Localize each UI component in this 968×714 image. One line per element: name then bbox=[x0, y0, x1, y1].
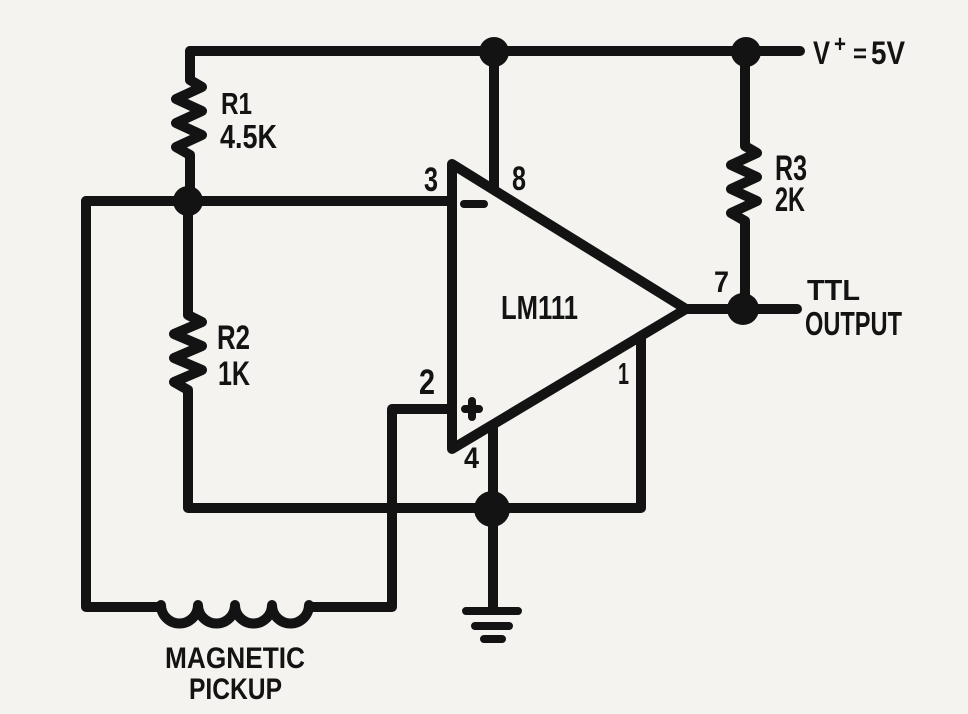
wire pin 4 down to ground bbox=[488, 425, 498, 607]
wire pickup right end up to pin 2 bbox=[309, 409, 450, 607]
svg-text:R1: R1 bbox=[221, 86, 252, 121]
svg-text:LM111: LM111 bbox=[501, 289, 578, 326]
op-amp U1 LM111 triangle bbox=[452, 164, 686, 449]
resistor R1 bbox=[176, 51, 202, 199]
svg-text:4.5K: 4.5K bbox=[220, 118, 277, 155]
minus symbol inverting input bbox=[464, 200, 484, 208]
svg-text:V: V bbox=[813, 35, 831, 71]
ground bbox=[466, 611, 518, 639]
svg-text:4: 4 bbox=[464, 442, 479, 475]
resistor R2 bbox=[174, 201, 202, 430]
wire top supply rail bbox=[190, 46, 800, 56]
svg-text:2: 2 bbox=[419, 363, 435, 402]
inductor magnetic pickup bbox=[161, 605, 309, 624]
svg-text:TTL: TTL bbox=[807, 275, 860, 307]
svg-text:PICKUP: PICKUP bbox=[189, 673, 282, 706]
junction node output pin7 bbox=[727, 293, 759, 325]
junction node ground (pins 1,4, R2) bbox=[474, 491, 510, 527]
junction node R3 top on rail bbox=[731, 37, 761, 67]
resistor R3 bbox=[731, 51, 757, 308]
svg-text:R2: R2 bbox=[217, 319, 250, 357]
svg-text:7: 7 bbox=[714, 266, 729, 299]
svg-text:5V: 5V bbox=[871, 35, 906, 71]
junction node A (R1/R2/pin3) bbox=[173, 186, 203, 216]
wire pin 8 from supply rail bbox=[489, 51, 499, 189]
svg-text:MAGNETIC: MAGNETIC bbox=[165, 642, 305, 675]
wire left branch down to pickup bbox=[86, 201, 160, 607]
svg-text:2K: 2K bbox=[775, 181, 805, 219]
plus symbol non-inverting input bbox=[465, 401, 479, 417]
svg-text:=: = bbox=[853, 38, 867, 68]
svg-text:3: 3 bbox=[424, 161, 438, 199]
svg-text:1K: 1K bbox=[218, 355, 250, 393]
wire pin3 input from node A bbox=[86, 196, 451, 206]
wire R2 bottom to ground node and pin 1 bbox=[188, 338, 641, 508]
junction node pin8 on rail bbox=[479, 37, 509, 67]
svg-text:+: + bbox=[834, 31, 846, 58]
svg-text:8: 8 bbox=[512, 160, 526, 198]
svg-text:OUTPUT: OUTPUT bbox=[805, 305, 902, 342]
svg-text:1: 1 bbox=[618, 356, 629, 391]
wire output to TTL bbox=[686, 304, 797, 314]
